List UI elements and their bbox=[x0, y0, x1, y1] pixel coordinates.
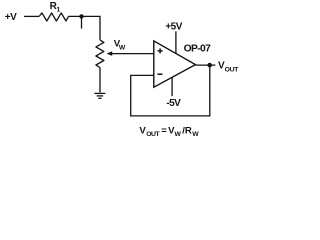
label R1 bbox=[50, 1, 61, 13]
svg-text:=: = bbox=[161, 126, 167, 137]
wire +V to R1 bbox=[24, 15, 39, 17]
+5V supply label bbox=[165, 21, 182, 32]
svg-text:-5V: -5V bbox=[166, 98, 181, 109]
label OP-07 bbox=[184, 44, 212, 55]
-5V supply label bbox=[166, 98, 181, 109]
output wire bbox=[196, 64, 216, 66]
wire pot bottom to ground bbox=[99, 68, 101, 93]
svg-text:OP-07: OP-07 bbox=[184, 44, 212, 55]
potentiometer RW bbox=[96, 40, 104, 68]
resistor R1 bbox=[39, 13, 68, 21]
formula label VOUT = VW/RW bbox=[139, 126, 199, 138]
+5V supply wire bbox=[175, 31, 177, 53]
label VW node bbox=[114, 39, 126, 52]
junction dot node A bbox=[79, 14, 83, 18]
wire R1 to pot top corner bbox=[69, 16, 101, 40]
svg-text:W: W bbox=[175, 131, 182, 138]
svg-text:W: W bbox=[192, 131, 199, 138]
op-amp minus input pin bbox=[157, 73, 162, 75]
feedback wire bbox=[131, 65, 210, 116]
node VOUT dot bbox=[207, 63, 212, 68]
label VOUT bbox=[218, 61, 239, 74]
op-amp plus input pin bbox=[158, 48, 163, 53]
svg-text:1: 1 bbox=[57, 6, 61, 13]
op-amp U1 triangle bbox=[154, 41, 196, 87]
svg-text:OUT: OUT bbox=[146, 131, 160, 138]
node +V bbox=[5, 12, 17, 23]
svg-text:OUT: OUT bbox=[225, 66, 240, 73]
svg-text:+V: +V bbox=[5, 12, 17, 23]
-5V supply wire bbox=[171, 78, 173, 97]
wiper arrow bbox=[107, 51, 154, 56]
svg-text:+5V: +5V bbox=[165, 21, 182, 32]
stub wire below junction bbox=[81, 16, 83, 28]
ground bbox=[94, 93, 105, 98]
svg-text:R: R bbox=[185, 126, 192, 137]
svg-text:W: W bbox=[119, 45, 126, 52]
